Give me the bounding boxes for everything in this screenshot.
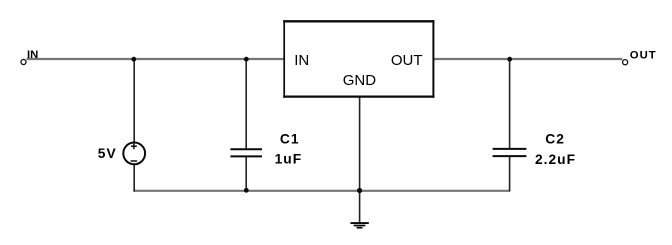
svg-text:IN: IN — [294, 52, 309, 69]
svg-text:OUT: OUT — [630, 50, 657, 62]
svg-text:C2: C2 — [545, 132, 565, 147]
svg-text:GND: GND — [343, 72, 377, 89]
svg-text:2.2uF: 2.2uF — [535, 152, 576, 167]
svg-text:5V: 5V — [98, 146, 117, 161]
svg-text:IN: IN — [27, 49, 38, 61]
svg-text:C1: C1 — [280, 132, 300, 147]
svg-text:1uF: 1uF — [275, 152, 303, 167]
svg-text:OUT: OUT — [391, 52, 423, 69]
